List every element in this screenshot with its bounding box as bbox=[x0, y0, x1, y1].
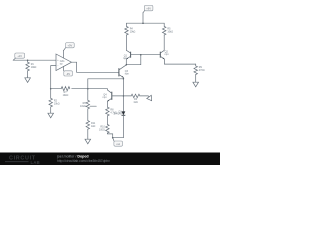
svg-text:1kΩ: 1kΩ bbox=[133, 101, 138, 104]
wire base rail bbox=[131, 54, 161, 56]
wire top rail bbox=[127, 22, 165, 24]
resistor R6 bbox=[80, 89, 96, 121]
svg-text:npn: npn bbox=[165, 53, 170, 56]
svg-text:10kΩ: 10kΩ bbox=[54, 102, 60, 105]
svg-text:npn: npn bbox=[123, 57, 128, 60]
resistor R11 bbox=[86, 121, 96, 138]
ground bbox=[25, 77, 31, 83]
node junction bases bbox=[140, 54, 142, 56]
wire down to diode chain bbox=[122, 79, 124, 112]
wire inverting input bbox=[51, 66, 56, 89]
node junction Q1 emitter / Q3 collector bbox=[126, 64, 128, 66]
wire input net bbox=[13, 59, 56, 61]
resistor R4 bbox=[125, 23, 136, 50]
diode D1 bbox=[113, 110, 125, 137]
transistor Q3 bbox=[119, 65, 130, 79]
svg-text:10kΩ: 10kΩ bbox=[167, 31, 173, 34]
svg-text:10kΩ: 10kΩ bbox=[31, 66, 37, 69]
wire supply bbox=[142, 13, 144, 24]
svg-text:10kΩ: 10kΩ bbox=[63, 94, 69, 97]
svg-text:+1V: +1V bbox=[17, 54, 22, 58]
wire Q1 emitter bbox=[126, 55, 141, 65]
ground rotated bbox=[146, 94, 154, 102]
ground bbox=[85, 138, 91, 144]
svg-text:100Ω: 100Ω bbox=[99, 129, 105, 132]
svg-text:npn: npn bbox=[125, 72, 130, 75]
resistor R7 bbox=[61, 87, 107, 98]
wire op-amp output bbox=[72, 62, 119, 72]
wire up to emitter line bbox=[88, 79, 124, 89]
svg-text:+9V: +9V bbox=[68, 44, 73, 48]
node junction feedback bbox=[50, 88, 52, 90]
svg-text:LAB: LAB bbox=[31, 160, 41, 165]
svg-text:470Ω: 470Ω bbox=[199, 69, 205, 72]
node junction mid divider bbox=[87, 88, 89, 90]
svg-text:1kΩ: 1kΩ bbox=[91, 125, 96, 128]
node flag bottom bbox=[113, 138, 123, 147]
ground bbox=[48, 112, 54, 118]
svg-text:10kΩ: 10kΩ bbox=[80, 105, 86, 108]
svg-text:1N4148: 1N4148 bbox=[113, 113, 122, 116]
svg-text:npn: npn bbox=[103, 96, 108, 99]
node flag +9V top bbox=[143, 5, 153, 12]
resistor R1 bbox=[26, 60, 37, 76]
wire feedback horizontal bbox=[51, 88, 61, 90]
svg-text:10kΩ: 10kΩ bbox=[130, 31, 136, 34]
transistor Q2 bbox=[160, 50, 169, 59]
node junction bottom bbox=[112, 137, 114, 139]
node junction rail bbox=[142, 22, 144, 24]
svg-text:+9V: +9V bbox=[146, 7, 151, 11]
resistor R2 bbox=[49, 89, 60, 112]
wire bottom knot bbox=[113, 137, 124, 139]
node junction Q3 emitter bbox=[123, 78, 125, 80]
op-amp OA1 bbox=[56, 54, 72, 71]
resistor R8 bbox=[106, 107, 117, 124]
transistor Q1 bbox=[123, 50, 131, 59]
CircuitLab logo bbox=[5, 156, 40, 165]
resistor R10 bbox=[99, 124, 113, 137]
svg-text:joel.molitor / Doped: joel.molitor / Doped bbox=[56, 154, 89, 158]
ground bbox=[193, 81, 199, 87]
svg-text:out: out bbox=[116, 142, 120, 146]
node flag Vin bbox=[13, 53, 24, 60]
footer bar bbox=[0, 153, 220, 166]
svg-text:http://circuitlab.com/c/be3th4: http://circuitlab.com/c/be3th457qbhv bbox=[57, 159, 110, 163]
wire Q4 emitter bbox=[106, 101, 108, 107]
resistor R3 bbox=[123, 94, 148, 104]
node flag V+ supply of OA1 bbox=[64, 43, 75, 51]
resistor R9 bbox=[194, 64, 205, 81]
node flag V- supply of OA1 bbox=[64, 71, 73, 76]
op-amp V- pin stub bbox=[63, 67, 65, 71]
transistor Q4 bbox=[103, 89, 124, 102]
node junction input/R1 bbox=[27, 59, 29, 61]
svg-text:-9V: -9V bbox=[66, 72, 70, 76]
resistor R5 bbox=[162, 23, 173, 50]
op-amp V+ pin stub bbox=[63, 51, 65, 58]
node junction Q4 base bbox=[123, 95, 125, 97]
wire Q2 emitter bbox=[164, 59, 195, 64]
